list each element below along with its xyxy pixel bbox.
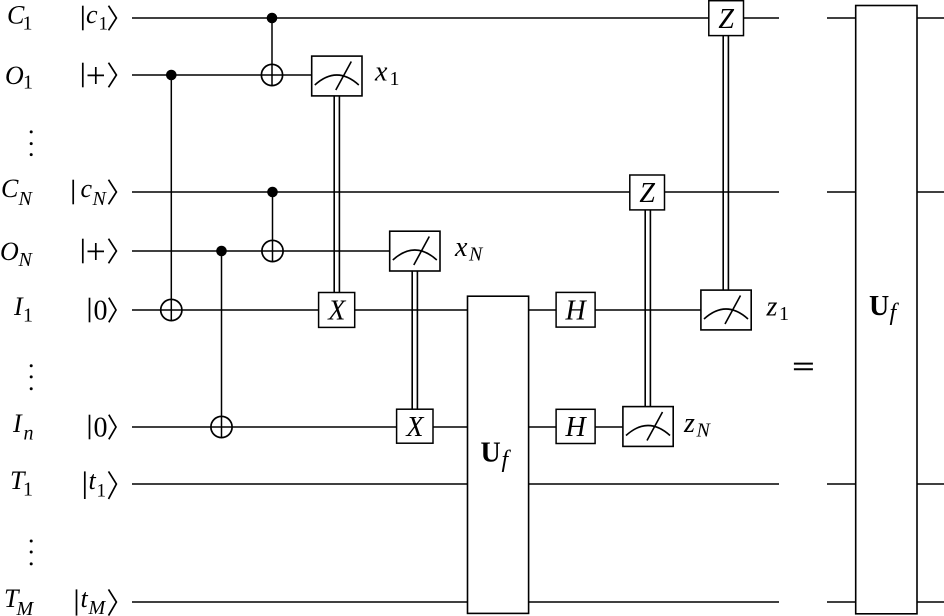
measurement meter xN on ON	[390, 231, 440, 271]
wire O1	[132, 74, 312, 76]
svg-text:1: 1	[99, 14, 109, 35]
equals sign	[794, 364, 813, 370]
row label CN	[1, 174, 34, 210]
gate H on I1	[556, 292, 595, 327]
wire stub left TM right box	[827, 601, 856, 603]
svg-text:C: C	[1, 174, 19, 203]
wire I1	[132, 309, 701, 311]
svg-text:1: 1	[23, 72, 33, 94]
svg-text:N: N	[696, 420, 712, 442]
wire stub right CN right box	[917, 191, 944, 193]
control dot on ON	[216, 246, 227, 257]
vertical wire CN control to ON target	[272, 192, 274, 262]
vertical wire O1 control to I1 target	[170, 75, 172, 321]
vertical wire C1 control to O1 target	[271, 18, 273, 86]
svg-text:1: 1	[23, 13, 33, 35]
dots between T1 and TM	[30, 540, 33, 566]
ket |cN> on CN	[73, 174, 116, 210]
dots between I1 and In	[30, 364, 33, 390]
svg-text:O: O	[0, 237, 19, 266]
CNOT target on In	[211, 416, 232, 437]
row label In	[12, 409, 34, 444]
row label TM	[4, 584, 35, 616]
classical double wire xN meter to X gate In	[412, 271, 417, 409]
gate Z on CN	[630, 175, 665, 210]
svg-text:Z: Z	[718, 4, 734, 35]
svg-text:X: X	[405, 412, 424, 443]
svg-text:O: O	[5, 61, 24, 90]
wire stub left T1 right box	[827, 483, 856, 485]
control dot on CN	[267, 187, 278, 198]
svg-text:Z: Z	[639, 178, 655, 209]
wire C1	[132, 17, 779, 19]
ket |tM> on TM	[77, 584, 117, 616]
wire In	[132, 426, 623, 428]
svg-text:z: z	[683, 408, 695, 439]
measurement meter z1 on I1	[701, 290, 751, 330]
svg-text:I: I	[12, 409, 23, 438]
svg-text:t: t	[89, 466, 97, 495]
wire stub right T1 right box	[917, 483, 944, 485]
row label ON	[0, 237, 34, 271]
label z1	[766, 292, 790, 326]
svg-text:t: t	[81, 584, 89, 613]
ket |t1> on T1	[85, 466, 117, 501]
svg-text:c: c	[81, 174, 93, 203]
wire stub left CN right box	[827, 191, 856, 193]
svg-text:U: U	[481, 437, 501, 468]
vertical wire ON control to In target	[221, 251, 223, 438]
classical double wire Z C1 to z1 meter	[723, 36, 728, 291]
svg-text:M: M	[88, 597, 107, 616]
svg-text:1: 1	[390, 68, 400, 90]
wire CN	[132, 191, 779, 193]
row label I1	[13, 292, 33, 326]
row label T1	[10, 466, 33, 500]
CNOT target on I1	[161, 299, 182, 320]
svg-text:1: 1	[97, 481, 107, 502]
svg-text:1: 1	[23, 479, 33, 501]
measurement meter zN on In	[623, 407, 673, 447]
svg-text:N: N	[18, 249, 34, 271]
wire stub right C1 right box	[917, 17, 944, 19]
ket |0> on In	[90, 412, 117, 443]
CNOT target on ON	[262, 240, 283, 261]
svg-text:c: c	[86, 0, 98, 29]
svg-text:1: 1	[779, 303, 789, 325]
ket |c1> on C1	[83, 0, 117, 35]
gate X on I1	[319, 293, 355, 328]
measurement meter x1 on O1	[312, 56, 362, 96]
classical double wire Z CN to zN meter	[645, 210, 650, 407]
classical double wire x1 meter to X gate I1	[334, 96, 339, 293]
row label O1	[5, 61, 33, 94]
svg-text:H: H	[564, 295, 587, 326]
svg-text:X: X	[327, 296, 346, 327]
control dot on O1	[166, 70, 177, 81]
svg-text:N: N	[468, 244, 484, 266]
svg-text:z: z	[766, 292, 778, 323]
gate H on In	[556, 409, 595, 443]
svg-text:M: M	[16, 598, 35, 616]
row label C1	[7, 0, 33, 34]
wire T1	[132, 483, 779, 485]
CNOT target on O1	[261, 64, 282, 85]
svg-text:N: N	[92, 188, 108, 210]
svg-text:x: x	[454, 232, 468, 263]
ket |0> on I1	[90, 295, 117, 326]
oracle box Uf main	[468, 296, 529, 613]
svg-text:N: N	[18, 188, 34, 210]
gate X on In	[397, 409, 433, 443]
ket |+> on ON	[83, 239, 117, 264]
wire stub right TM right box	[917, 601, 944, 603]
svg-text:x: x	[374, 57, 388, 88]
svg-text:0: 0	[94, 412, 108, 443]
svg-text:U: U	[869, 291, 889, 322]
svg-text:H: H	[564, 412, 587, 443]
oracle box Uf right equivalent	[856, 6, 917, 614]
control dot on C1	[267, 13, 278, 24]
label xN	[454, 232, 484, 266]
wire ON	[132, 250, 390, 252]
wire stub left C1 right box	[827, 17, 856, 19]
wire TM	[132, 601, 779, 603]
ket |+> on O1	[83, 63, 117, 88]
label zN	[683, 408, 712, 442]
svg-text:0: 0	[94, 295, 108, 326]
svg-text:n: n	[24, 423, 34, 445]
label x1	[374, 57, 400, 91]
svg-text:1: 1	[23, 305, 33, 327]
gate Z on C1	[709, 1, 744, 36]
dots between O1 and CN	[30, 130, 33, 156]
